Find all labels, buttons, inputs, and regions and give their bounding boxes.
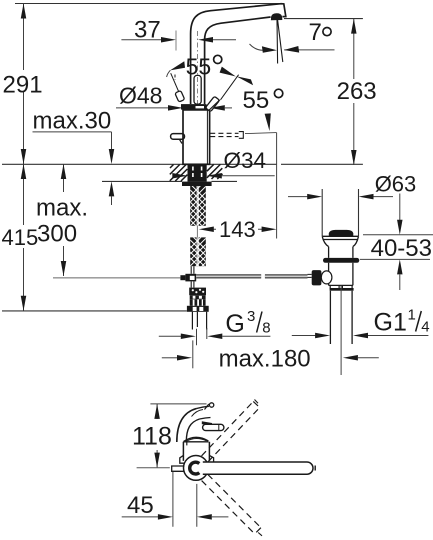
drain lever block (312, 270, 322, 285)
svg-text:1: 1 (408, 307, 416, 324)
svg-text:118: 118 (132, 423, 172, 451)
dashed lever horizontal (210, 133, 238, 136)
drain tailpipe (330, 291, 352, 344)
dashed lever down position (202, 474, 261, 534)
max.30 leader (33, 132, 112, 150)
dimension 143 (204, 228, 270, 230)
dimension 45 (173, 472, 197, 527)
dimension max.180 (162, 357, 178, 359)
dimension 118 (156, 404, 158, 468)
55 deg arc arrow left (170, 61, 185, 70)
svg-text:143: 143 (219, 217, 256, 242)
right tilted lever (205, 96, 219, 112)
rod break centerline (196, 226, 198, 238)
svg-text:max.: max. (36, 195, 88, 222)
svg-text:45: 45 (127, 492, 154, 519)
svg-text:7: 7 (309, 19, 322, 46)
dimension 37 right arrow (198, 37, 213, 43)
pull rod junction (185, 274, 196, 282)
dashed lever up position (202, 402, 260, 462)
dimension G3/8 arrows (159, 335, 181, 337)
threaded rod lower (190, 237, 206, 266)
threaded rod upper (190, 186, 206, 226)
handle socket ring (190, 462, 200, 474)
counter underside line (102, 180, 237, 182)
lever axis extension (137, 467, 170, 469)
drain centerline (340, 286, 342, 376)
front view pivot cylinder (202, 421, 212, 425)
drain neck (329, 247, 353, 258)
svg-text:291: 291 (3, 72, 43, 99)
svg-text:263: 263 (337, 78, 377, 105)
dimension Ø63 arrows (288, 196, 308, 198)
handle collar (181, 104, 207, 110)
dimension 291 arrow up (21, 4, 27, 19)
svg-text:G: G (225, 310, 244, 338)
vertical line for 143 (276, 133, 278, 239)
dimension 263 (353, 19, 355, 165)
front view flare (180, 455, 185, 463)
leader to 55 deg dashed position (245, 133, 277, 134)
svg-text:415: 415 (2, 225, 39, 250)
dimension 291 line (23, 4, 25, 165)
svg-text:max.30: max.30 (33, 108, 112, 135)
reference line at hose end (2, 310, 187, 312)
svg-text:Ø63: Ø63 (375, 171, 417, 196)
drain flange (322, 236, 358, 246)
dimension 40-53 (363, 234, 433, 236)
front view body sides (183, 442, 209, 461)
dimension G1 1/4 (292, 335, 316, 337)
horizontal pop-up rod right (196, 275, 307, 277)
drain ball joint (321, 271, 332, 284)
svg-text:55: 55 (243, 87, 270, 114)
svg-text:Ø48: Ø48 (119, 83, 162, 109)
horizontal pop-up rod left (53, 277, 180, 279)
dimension 415 line (23, 164, 25, 311)
dimension max300 arrow up (61, 164, 67, 179)
hatching right of shank (207, 164, 223, 179)
drain bottom cap (330, 285, 352, 288)
dimension 37 left bar (175, 31, 177, 51)
pull rod stem (191, 266, 194, 274)
rod stub to drain (308, 274, 312, 277)
mounting washer (182, 182, 212, 186)
svg-text:4: 4 (421, 319, 429, 336)
drain plug (329, 230, 353, 236)
max.30 arrow down (109, 149, 115, 164)
dimension max300 line (63, 164, 65, 276)
hatching left of shank (170, 165, 188, 182)
handle boss circle (184, 456, 209, 481)
svg-text:300: 300 (37, 221, 77, 248)
spout riser centerline (196, 31, 198, 104)
7 degree lines (277, 20, 283, 64)
55 deg second arrowhead (265, 113, 271, 131)
aerator stub (172, 466, 185, 471)
lever bar (203, 462, 313, 474)
supply tubes (192, 312, 206, 330)
drain Ø63 extent lines (322, 189, 358, 236)
pull rod stem lower (191, 281, 194, 287)
Ø48 leader and arrows (116, 107, 170, 109)
dimension 415 arrow up (21, 164, 27, 179)
svg-text:55: 55 (186, 53, 212, 79)
spout outline (191, 4, 286, 104)
front view body dome (184, 437, 209, 441)
svg-text:max.180: max.180 (219, 346, 311, 373)
handle lever up (194, 75, 201, 104)
dimension 37 line (121, 39, 161, 41)
55 deg bowtie arrows (220, 67, 236, 77)
left tilted lever (171, 73, 181, 97)
front view spout curves (177, 409, 197, 443)
counter top line (2, 163, 363, 165)
top extension line (150, 403, 206, 405)
supply connection nut (189, 288, 206, 296)
left knob on body (171, 134, 185, 140)
aerator dome (271, 14, 282, 20)
max.30 arrow up (109, 181, 115, 196)
top reference line (15, 3, 284, 5)
dimension 291 arrow down (21, 149, 27, 164)
aerator reference line (284, 18, 363, 20)
svg-text:G1: G1 (374, 309, 407, 337)
threaded shank in counter (188, 165, 207, 182)
svg-text:3: 3 (247, 308, 255, 325)
drain body (329, 263, 353, 286)
svg-text:40-53: 40-53 (371, 235, 432, 262)
svg-text:Ø34: Ø34 (224, 148, 267, 173)
spout tip circle (209, 403, 213, 407)
drain O-ring (323, 258, 359, 263)
body of faucet (183, 110, 210, 164)
dimension max300 arrow down (61, 261, 67, 276)
dimension 415 arrow down (21, 296, 27, 311)
Ø34 arrows (172, 173, 187, 179)
svg-text:8: 8 (262, 320, 270, 337)
